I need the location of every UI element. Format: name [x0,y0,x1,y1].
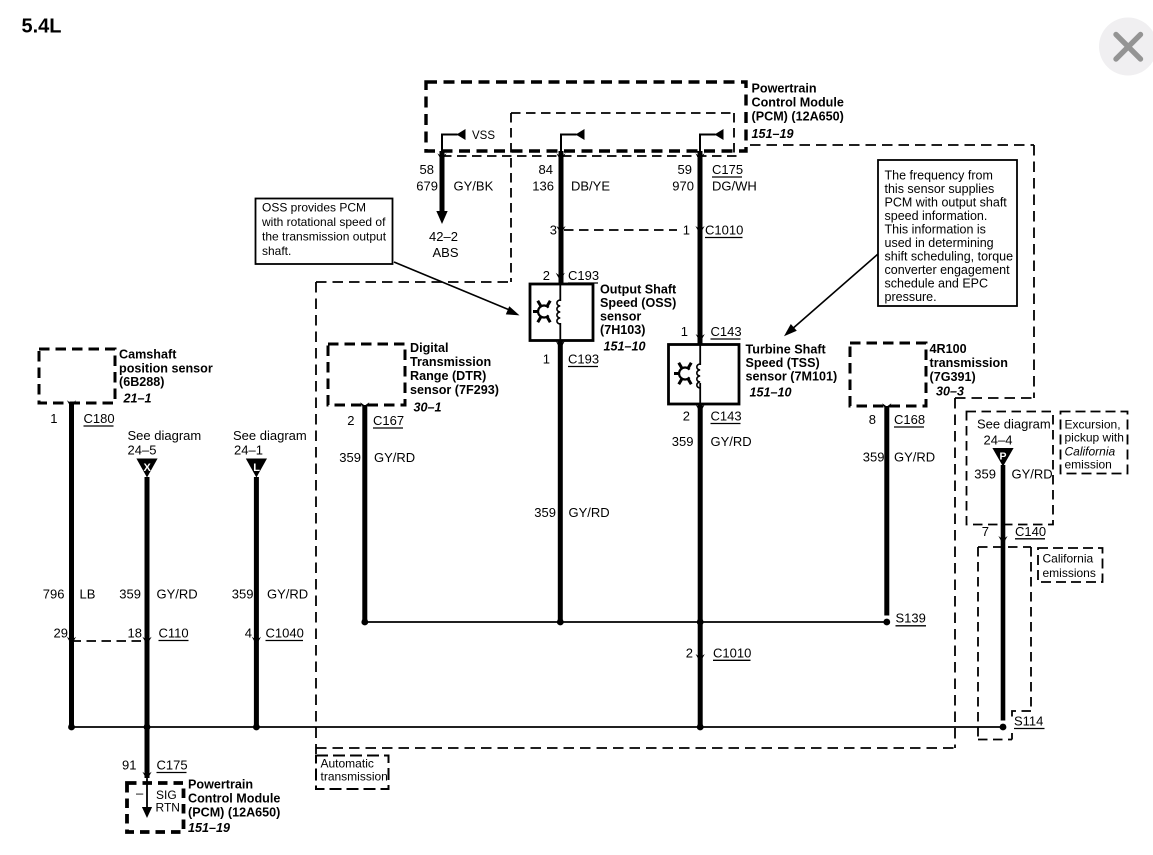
note box: OSS provides PCM [256,199,393,265]
pin symbol 59 [695,153,704,161]
svg-text:796: 796 [43,587,65,602]
pin symbol 58 [437,153,446,161]
svg-text:(PCM) (12A650): (PCM) (12A650) [188,806,280,820]
svg-text:Range (DTR): Range (DTR) [410,369,486,383]
pin symbol 91 [142,772,151,780]
pin symbol C1010 bottom [696,654,705,662]
junction dot TSS/S139 [697,619,704,626]
connector C1010 dashed line [564,229,677,231]
splice bus S114 [72,726,1004,728]
wire DTR 359 GY/RD [362,405,367,622]
svg-text:California: California [1065,445,1116,459]
svg-text:91: 91 [122,758,136,773]
svg-text:(6B288): (6B288) [119,375,165,389]
Camshaft sensor labels [119,348,213,406]
note box: frequency explanation [878,160,1017,306]
connector C167 label [373,413,404,428]
svg-text:C167: C167 [373,413,404,428]
junction dot TSS/S114 [697,724,704,731]
pin symbol C180 [67,400,76,408]
svg-text:(7G391): (7G391) [930,370,976,384]
svg-text:2: 2 [543,268,550,283]
pin symbol 29 [67,637,76,645]
svg-text:24–1: 24–1 [234,443,263,458]
svg-text:24–4: 24–4 [984,433,1013,448]
svg-text:ABS: ABS [433,245,459,260]
node P triangle [992,448,1013,467]
arrow from OSS note to OSS sensor [394,262,520,315]
svg-text:151–10: 151–10 [604,340,646,354]
automatic transmission region boundary, thin dashed [316,145,1034,754]
pin stub wire 84 inside PCM [561,129,585,151]
svg-text:OSS provides PCM: OSS provides PCM [262,201,366,215]
pin symbol C167 [360,402,369,410]
svg-text:(7H103): (7H103) [600,323,646,337]
svg-text:transmission: transmission [321,770,388,784]
close button [1099,18,1153,76]
SIG RTN wire inside bottom PCM [136,779,180,818]
pin symbol C168 [882,403,891,411]
junction dot 4R100/S139 [883,619,890,626]
svg-text:359: 359 [974,467,996,482]
svg-text:GY/RD: GY/RD [711,434,752,449]
svg-text:Excursion,: Excursion, [1065,418,1121,432]
svg-text:21–1: 21–1 [123,392,152,406]
svg-text:speed information.: speed information. [885,209,988,223]
svg-text:136: 136 [532,179,554,194]
connector C193 label top [568,268,599,283]
svg-text:emissions: emissions [1043,566,1096,580]
svg-text:Automatic: Automatic [321,757,374,771]
svg-text:C143: C143 [711,324,742,339]
wire L 359 GY/RD [254,477,259,727]
connector C1010 label bottom [713,646,751,661]
svg-text:C1010: C1010 [713,646,751,661]
connector C110 label [159,626,189,641]
4R100 transmission box (7G391), heavy dashed [850,343,926,406]
svg-text:sensor: sensor [600,310,641,324]
pin symbol 4 [252,637,261,645]
pin symbol C143 bottom [696,405,705,413]
svg-text:359: 359 [534,505,556,520]
svg-text:7: 7 [982,524,989,539]
junction dot camshaft/S114 [68,724,75,731]
splice S114 label [1014,714,1045,729]
see diagram 24-4 dashed box [967,412,1054,525]
svg-text:Digital: Digital [410,341,448,355]
svg-text:C175: C175 [712,162,743,177]
svg-text:970: 970 [672,179,694,194]
pin symbol 3 [556,226,565,234]
pin symbol C193 top [556,273,565,281]
svg-text:2: 2 [686,646,693,661]
svg-text:C1010: C1010 [705,223,743,238]
svg-text:transmission: transmission [930,356,1008,370]
svg-text:2: 2 [683,409,690,424]
PCM inner connector dashed box segments [442,113,742,282]
TSS sensor box (7M101) [669,345,740,405]
svg-text:C193: C193 [568,352,599,367]
junction dot DTR/S139 [361,619,368,626]
svg-text:C175: C175 [157,758,188,773]
node L triangle [246,459,267,478]
svg-text:GY/RD: GY/RD [374,450,415,465]
svg-text:S139: S139 [896,611,926,626]
connector C180 label [84,411,115,426]
svg-text:GY/BK: GY/BK [454,179,494,194]
svg-text:LB: LB [80,587,96,602]
svg-text:GY/RD: GY/RD [1012,467,1053,482]
svg-text:30–3: 30–3 [936,385,964,399]
wire 136 DB/YE [559,151,564,284]
connector C140 label [1015,524,1046,539]
arrow to 42-2 ABS [436,211,447,224]
wire X 359 GY/RD [145,477,150,778]
svg-text:5.4L: 5.4L [22,16,62,38]
wire 4R100 359 GY/RD [884,406,889,616]
svg-text:S114: S114 [1014,714,1043,729]
connector C143 label bottom [711,409,742,424]
svg-text:42–2: 42–2 [429,229,458,244]
svg-text:1: 1 [681,324,688,339]
PCM label top [752,82,844,142]
connector C1010 label [705,223,743,238]
wire TSS 359 GY/RD [698,404,703,727]
svg-text:1: 1 [683,223,690,238]
svg-text:Camshaft: Camshaft [119,348,177,362]
svg-text:See diagram: See diagram [128,428,202,443]
svg-text:C193: C193 [568,268,599,283]
svg-text:VSS: VSS [472,130,495,142]
svg-text:1: 1 [543,352,550,367]
connector C143 label top [711,324,742,339]
svg-text:L: L [253,462,260,474]
wire VSS 679 GY/BK [440,151,445,212]
DTR sensor box (7F293), heavy dashed [328,344,405,405]
svg-text:California: California [1043,552,1094,566]
svg-text:359: 359 [119,587,141,602]
junction dot L/S114 [253,724,260,731]
svg-text:151–10: 151–10 [750,386,792,400]
svg-text:the transmission output: the transmission output [262,230,387,244]
connector C1040 label [266,626,304,641]
op: OSS sensor box (7H103) [530,284,593,341]
svg-text:Speed (TSS): Speed (TSS) [746,356,820,370]
svg-text:C110: C110 [159,626,189,641]
svg-text:Control Module: Control Module [188,792,280,806]
PCM (12A650) module box bottom, heavy dashed [127,783,184,832]
svg-text:emission: emission [1065,458,1112,472]
svg-text:359: 359 [339,450,361,465]
svg-text:4: 4 [245,626,252,641]
splice bus S139 [365,621,887,623]
California emissions label dashed box [1038,548,1103,582]
connector C110 dashed link [72,640,148,642]
svg-text:30–1: 30–1 [414,401,442,415]
svg-text:DG/WH: DG/WH [712,179,757,194]
PCM (12A650) module box top, heavy dashed [426,82,746,151]
arrow from frequency note to TSS sensor [784,254,878,336]
svg-text:This information is: This information is [885,223,986,237]
svg-text:shift scheduling, torque: shift scheduling, torque [885,250,1014,264]
svg-text:84: 84 [539,162,553,177]
svg-text:Powertrain: Powertrain [188,778,253,792]
svg-text:C140: C140 [1015,524,1046,539]
svg-text:used in determining: used in determining [885,236,994,250]
svg-text:359: 359 [232,587,254,602]
splice S139 label [896,611,927,626]
svg-text:2: 2 [347,413,354,428]
svg-text:See diagram: See diagram [233,428,307,443]
svg-text:RTN: RTN [156,801,180,815]
svg-text:24–5: 24–5 [128,443,157,458]
svg-text:sensor (7M101): sensor (7M101) [746,370,838,384]
svg-text:GY/RD: GY/RD [267,587,308,602]
svg-text:Speed (OSS): Speed (OSS) [600,296,676,310]
svg-text:C1040: C1040 [266,626,304,641]
svg-text:359: 359 [672,434,694,449]
svg-text:PCM with output shaft: PCM with output shaft [885,196,1008,210]
California emissions region dashed box [978,547,1031,740]
svg-text:GY/RD: GY/RD [569,505,610,520]
svg-text:shaft.: shaft. [262,244,291,258]
svg-text:C168: C168 [894,412,925,427]
Camshaft position sensor box (6B288), heavy dashed [39,349,115,403]
pin symbol 18 [142,637,151,645]
OSS sensor labels [600,283,677,354]
svg-text:679: 679 [416,179,438,194]
svg-text:pickup with: pickup with [1065,431,1124,445]
svg-text:18: 18 [128,626,142,641]
connector C193 label bottom [568,352,599,367]
svg-text:this sensor supplies: this sensor supplies [885,182,995,196]
svg-text:P: P [999,451,1006,463]
svg-text:Turbine Shaft: Turbine Shaft [746,343,827,357]
svg-text:DB/YE: DB/YE [571,179,610,194]
pin stub wire 59 inside PCM [700,129,724,151]
wire 970 DG/WH [698,151,703,345]
pin symbol C140 [998,536,1007,544]
svg-text:8: 8 [869,412,876,427]
wire OSS 359 GY/RD [558,341,563,623]
svg-text:converter engagement: converter engagement [885,263,1011,277]
4R100 labels [930,342,1008,399]
junction dot OSS/S139 [557,619,564,626]
svg-text:(PCM) (12A650): (PCM) (12A650) [752,110,844,124]
svg-text:sensor (7F293): sensor (7F293) [410,383,499,397]
svg-text:GY/RD: GY/RD [894,450,935,465]
svg-text:59: 59 [678,162,692,177]
svg-text:C143: C143 [711,409,742,424]
wire P 359 GY/RD [1001,465,1006,721]
svg-text:GY/RD: GY/RD [157,587,198,602]
junction dot X/S114 [144,724,151,731]
svg-text:3: 3 [550,223,557,238]
svg-text:Powertrain: Powertrain [752,82,817,96]
TSS sensor labels [746,343,838,400]
wire camshaft 796 LB [69,403,74,727]
automatic transmission label dashed box [316,756,389,790]
svg-text:151–19: 151–19 [188,821,230,835]
connector C168 label [894,412,925,427]
svg-text:schedule and EPC: schedule and EPC [885,277,989,291]
svg-text:29: 29 [54,626,68,641]
svg-text:Output Shaft: Output Shaft [600,283,677,297]
svg-text:1: 1 [50,411,57,426]
svg-text:Transmission: Transmission [410,355,491,369]
svg-text:151–19: 151–19 [752,127,794,141]
connector C175 label bottom [157,758,188,773]
svg-text:The frequency from: The frequency from [885,169,993,183]
node X triangle [136,459,157,478]
svg-text:Control Module: Control Module [752,96,844,110]
Excursion note dashed box [1061,412,1128,474]
svg-text:with rotational speed of: with rotational speed of [261,215,386,229]
svg-text:359: 359 [863,450,885,465]
pin symbol 1 [695,226,704,234]
svg-text:4R100: 4R100 [930,342,967,356]
connector C175 label [712,162,743,177]
VSS stub inside PCM [442,129,495,151]
junction dot P/S114 [1000,724,1007,731]
svg-text:pressure.: pressure. [885,290,937,304]
svg-text:58: 58 [420,162,434,177]
svg-text:position sensor: position sensor [119,362,213,376]
svg-text:See diagram: See diagram [977,417,1051,432]
pin symbol C193 bottom [556,341,565,349]
DTR sensor labels [410,341,499,415]
svg-text:X: X [144,462,152,474]
pin symbol 84 [556,153,565,161]
svg-text:–: – [136,786,144,801]
pin symbol C143 top [696,334,705,342]
PCM label bottom [188,778,280,836]
svg-text:C180: C180 [84,411,115,426]
